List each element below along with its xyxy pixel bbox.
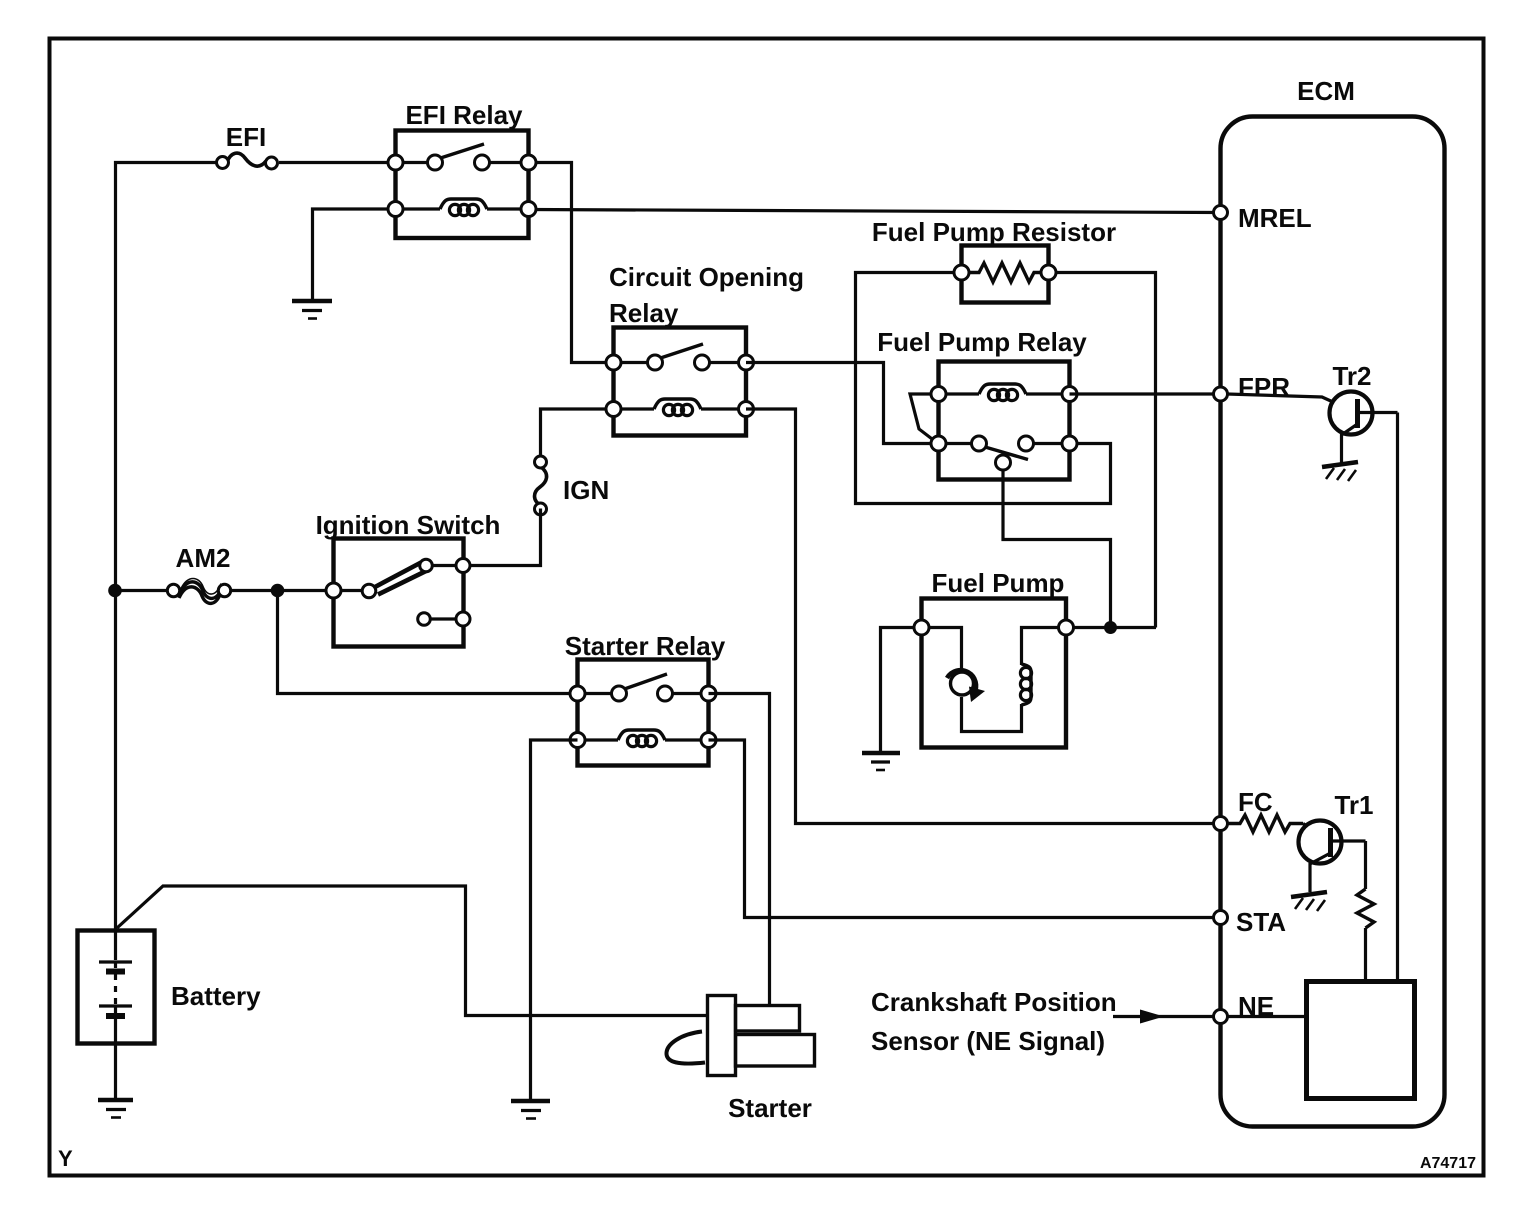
relay Starter Relay xyxy=(570,660,716,766)
pin FC xyxy=(1214,817,1228,831)
wire EFI relay to circuit opening relay xyxy=(529,163,614,363)
wire crankshaft sensor input xyxy=(1113,1015,1213,1018)
svg-text:A74717: A74717 xyxy=(1420,1155,1476,1172)
ground EFI relay xyxy=(292,301,332,319)
battery Battery xyxy=(78,931,155,1099)
relay Fuel Pump Relay xyxy=(910,362,1077,480)
svg-text:MREL: MREL xyxy=(1238,203,1312,233)
pin MREL xyxy=(1214,206,1228,220)
wire fuel pump to ground xyxy=(881,628,922,752)
relay EFI Relay xyxy=(388,131,536,239)
fuse EFI xyxy=(217,153,278,169)
svg-text:Fuel Pump: Fuel Pump xyxy=(932,568,1065,598)
wire COR switch to fuel pump relay xyxy=(746,363,939,444)
svg-text:Relay: Relay xyxy=(609,298,679,328)
svg-text:Sensor (NE Signal): Sensor (NE Signal) xyxy=(871,1026,1105,1056)
wire COR coil to FC xyxy=(746,409,1214,824)
svg-text:Starter Relay: Starter Relay xyxy=(565,631,726,661)
svg-text:Ignition Switch: Ignition Switch xyxy=(316,510,501,540)
svg-text:Battery: Battery xyxy=(171,981,261,1011)
svg-text:Crankshaft Position: Crankshaft Position xyxy=(871,987,1117,1017)
wire fuel pump relay output to pump xyxy=(1003,470,1111,623)
switch Ignition Switch xyxy=(326,539,470,647)
relay Circuit Opening Relay xyxy=(606,328,754,436)
svg-text:Y: Y xyxy=(58,1146,73,1171)
wire starter relay coil to ground xyxy=(531,740,578,1099)
wire fuel pump to junction xyxy=(1072,626,1156,629)
wire IGN branch from circuit opening relay coil xyxy=(541,409,615,463)
wire fuse EFI to EFI relay xyxy=(279,161,396,164)
svg-text:ECM: ECM xyxy=(1297,76,1355,106)
svg-text:Fuel Pump Relay: Fuel Pump Relay xyxy=(877,327,1087,357)
wire FPR net xyxy=(1070,392,1215,395)
ground battery xyxy=(98,1100,133,1118)
wire bus to AM2 fuse xyxy=(115,589,168,592)
ground Tr1 xyxy=(1291,892,1327,911)
wire AM2 to ignition switch xyxy=(231,589,334,592)
svg-text:IGN: IGN xyxy=(563,475,609,505)
fuse IGN xyxy=(535,456,547,515)
pin NE xyxy=(1214,1010,1228,1024)
svg-text:Fuel Pump Resistor: Fuel Pump Resistor xyxy=(872,217,1116,247)
svg-text:Tr2: Tr2 xyxy=(1332,361,1371,391)
wire STA net xyxy=(709,740,1215,918)
svg-text:EFI: EFI xyxy=(226,122,266,152)
svg-text:NE: NE xyxy=(1238,991,1274,1021)
fuel pump Fuel Pump xyxy=(914,599,1074,748)
resistor Fuel Pump Resistor xyxy=(954,246,1056,303)
wire Tr2 collector to block xyxy=(1396,413,1399,983)
resistor ECM FC input xyxy=(1228,815,1303,832)
arrowhead crankshaft sensor xyxy=(1140,1010,1164,1024)
wire fuel pump relay switch to resistor loop xyxy=(856,273,1111,504)
fuse AM2 xyxy=(167,579,230,604)
svg-text:FPR: FPR xyxy=(1238,372,1290,402)
pin FPR xyxy=(1214,387,1228,401)
transistor Tr1 xyxy=(1299,821,1366,893)
svg-text:Circuit Opening: Circuit Opening xyxy=(609,262,804,292)
wire MREL net xyxy=(529,210,1220,213)
wire battery to starter xyxy=(117,886,708,1016)
wire AM2 node to starter relay xyxy=(278,591,579,694)
ground starter relay xyxy=(511,1101,550,1119)
wire resistor to fuel pump xyxy=(1048,273,1156,628)
wire EFI relay coil to ground xyxy=(313,209,397,299)
wire resistor to block xyxy=(1364,928,1367,982)
pin STA xyxy=(1214,911,1228,925)
svg-text:Starter: Starter xyxy=(728,1093,812,1123)
junction battery bus / AM2 xyxy=(108,584,122,598)
wire starter relay to starter xyxy=(709,694,770,1007)
starter motor Starter xyxy=(666,996,814,1076)
svg-text:STA: STA xyxy=(1236,907,1286,937)
wire IGN fuse to ignition switch xyxy=(463,509,541,566)
wire Tr1 collector xyxy=(1364,841,1367,889)
junction fuel pump node xyxy=(1104,621,1117,634)
block ECM logic xyxy=(1307,982,1415,1099)
transistor Tr2 xyxy=(1227,392,1398,464)
svg-text:FC: FC xyxy=(1238,787,1273,817)
wire NE to block xyxy=(1227,1015,1307,1018)
wire battery positive bus xyxy=(116,163,224,932)
svg-text:EFI Relay: EFI Relay xyxy=(405,100,523,130)
ground Tr2 xyxy=(1322,462,1358,481)
svg-text:AM2: AM2 xyxy=(176,543,231,573)
resistor ECM pull-up xyxy=(1357,889,1374,928)
svg-text:Tr1: Tr1 xyxy=(1334,790,1373,820)
ECM body xyxy=(1221,117,1445,1127)
junction AM2 node xyxy=(271,584,285,598)
ground fuel pump xyxy=(862,753,900,770)
